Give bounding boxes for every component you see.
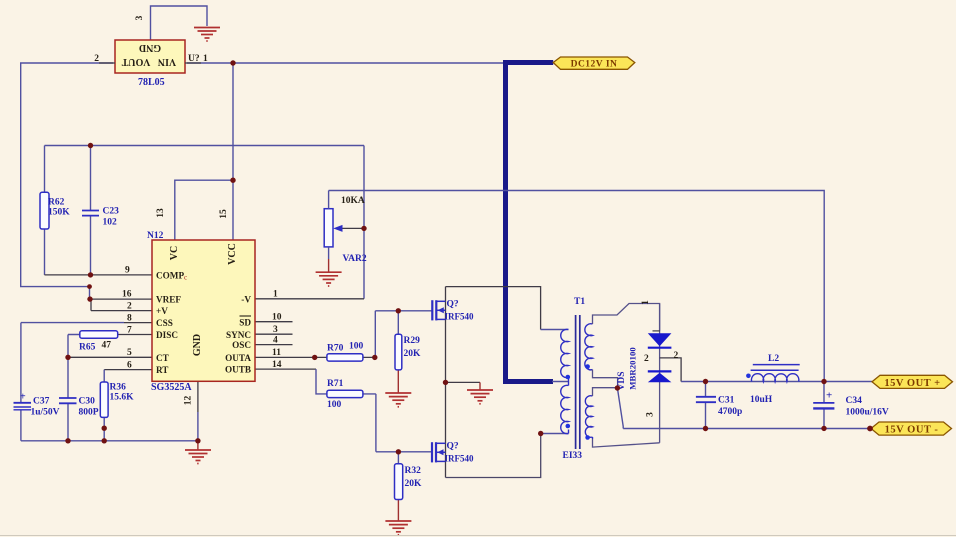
node VIN junction	[230, 60, 235, 65]
svg-text:12: 12	[184, 396, 194, 406]
node Q1 source gnd	[443, 380, 448, 385]
wire R32 stems	[397, 452, 399, 464]
svg-text:SG3525A: SG3525A	[151, 382, 192, 393]
svg-text:VREF: VREF	[156, 295, 181, 305]
svg-text:U?: U?	[188, 54, 200, 64]
svg-text:1: 1	[273, 290, 278, 300]
svg-text:GND: GND	[139, 42, 161, 53]
wire bottom rail	[21, 440, 198, 442]
wire secondary top to D1	[593, 304, 660, 331]
transformer T1 secondary bottom winding	[585, 396, 592, 438]
node C34 top	[821, 379, 826, 384]
svg-text:1u/50V: 1u/50V	[31, 408, 60, 418]
node rail corner	[87, 284, 92, 289]
transistor Q1 IRF540	[432, 300, 436, 320]
node VREF junction	[87, 296, 92, 301]
svg-text:5: 5	[127, 348, 132, 358]
wire IC pin12 gnd	[197, 381, 199, 412]
capacitor C30	[59, 397, 77, 399]
node C30 bottom	[65, 438, 70, 443]
svg-text:C37: C37	[33, 397, 50, 407]
resistor R36	[100, 382, 108, 417]
svg-text:L2: L2	[768, 354, 779, 364]
svg-text:3: 3	[273, 325, 278, 335]
svg-text:SD: SD	[239, 317, 251, 327]
diode D1 MBR20100	[648, 331, 672, 348]
wire VIN down to VC/VCC	[175, 63, 233, 240]
wire center tap to minus rail	[617, 388, 623, 429]
wire RT line	[104, 369, 152, 371]
wire R62 stems	[44, 146, 46, 275]
wire secondary bottom to D2	[593, 439, 660, 447]
svg-text:IRF540: IRF540	[445, 454, 474, 464]
transformer core	[576, 315, 580, 449]
flag 15V OUT +	[872, 375, 953, 389]
ground R29	[385, 393, 411, 407]
wire Q1 drain to primary top	[446, 287, 541, 330]
wire 78L05 pin2 left rail	[21, 63, 113, 287]
svg-text:2: 2	[127, 302, 132, 312]
svg-text:R65: R65	[79, 343, 96, 353]
wire 78L05 pin1 to bus	[187, 62, 503, 64]
node gate Q2	[396, 449, 401, 454]
capacitor C23	[82, 210, 99, 212]
svg-text:EI33: EI33	[563, 451, 583, 461]
node primary bottom	[538, 431, 543, 436]
wire R29 stems	[397, 311, 399, 334]
wire VREF line	[90, 298, 153, 300]
wire +V line	[91, 299, 152, 311]
wire rail to VREF	[89, 287, 91, 300]
ground R32	[385, 521, 411, 535]
wire diode vertical	[659, 304, 661, 443]
ground top	[194, 28, 220, 42]
wire 78L05 pin3 to ground	[151, 6, 208, 40]
svg-text:-V: -V	[241, 294, 251, 304]
svg-text:10uH: 10uH	[750, 395, 773, 405]
node R36 bottom a	[102, 426, 107, 431]
svg-text:1000u/16V: 1000u/16V	[846, 408, 889, 418]
svg-text:20K: 20K	[404, 349, 422, 359]
wire center tap tick	[552, 381, 569, 383]
wire minus rail	[623, 428, 871, 430]
node minus flag	[867, 426, 873, 432]
svg-text:OSC: OSC	[232, 340, 251, 350]
bottom edge line	[0, 535, 956, 537]
svg-text:IRF540: IRF540	[445, 312, 474, 322]
node CT junction	[65, 355, 70, 360]
svg-text:10KA: 10KA	[341, 196, 365, 206]
svg-text:R62: R62	[48, 198, 65, 208]
svg-text:VAR2: VAR2	[343, 254, 367, 264]
svg-text:800P: 800P	[79, 408, 99, 418]
svg-text:2: 2	[644, 354, 649, 364]
flag DC12V IN	[553, 57, 635, 70]
flag 15V OUT -	[871, 422, 952, 436]
pin OSC stub	[255, 344, 293, 346]
svg-text:GND: GND	[192, 334, 203, 356]
polarity dots transformer and L2	[566, 364, 751, 440]
wiper arrow VAR2	[340, 227, 364, 229]
svg-text:78L05: 78L05	[138, 77, 165, 88]
diode D2 MBR20100	[648, 371, 672, 382]
capacitor C37 polarized	[14, 402, 32, 404]
resistor R32	[395, 464, 403, 500]
svg-text:8: 8	[127, 313, 132, 323]
potentiometer VAR2 10KA	[324, 209, 333, 247]
svg-text:102: 102	[103, 218, 118, 228]
svg-text:CT: CT	[156, 353, 169, 363]
svg-text:R70: R70	[327, 344, 344, 354]
svg-text:c: c	[184, 274, 187, 282]
node COMP junction	[88, 272, 93, 277]
svg-text:CSS: CSS	[156, 318, 173, 328]
node OUTA b	[372, 355, 377, 360]
wire feedback from pot top to output	[329, 191, 825, 382]
wire Q2 bottom path to primary bottom	[446, 434, 541, 478]
svg-text:VOUT: VOUT	[121, 56, 150, 67]
inductor L2	[751, 374, 798, 382]
pin SD stub	[255, 321, 293, 323]
svg-text:4: 4	[273, 335, 278, 345]
svg-text:R36: R36	[110, 383, 127, 393]
wire secondary center tap	[593, 370, 618, 397]
resistor R71	[327, 390, 363, 397]
ground Q1 source	[467, 390, 493, 404]
svg-text:+V: +V	[156, 306, 168, 316]
svg-text:9: 9	[125, 266, 130, 276]
resistor R29	[395, 334, 402, 370]
svg-text:DC12V IN: DC12V IN	[571, 60, 618, 70]
svg-text:10: 10	[272, 313, 282, 323]
svg-text:3: 3	[646, 412, 656, 417]
transformer T1 primary winding	[561, 329, 569, 433]
svg-text:N12: N12	[147, 231, 164, 241]
node secondary center tap	[615, 385, 620, 390]
svg-text:R32: R32	[405, 466, 422, 476]
wire node 2 to plus rail	[660, 358, 682, 382]
node C31 top	[703, 379, 708, 384]
svg-text:2: 2	[674, 351, 679, 361]
svg-text:DISC: DISC	[156, 330, 178, 340]
pin SYNC stub	[255, 333, 293, 335]
svg-text:MBR20100: MBR20100	[628, 347, 638, 390]
wire rail y145	[45, 146, 365, 299]
wire CT line	[68, 356, 152, 358]
bus DC12V thick	[503, 60, 553, 382]
resistor R65	[80, 331, 118, 338]
svg-text:VCC: VCC	[227, 243, 238, 265]
svg-text:+: +	[826, 390, 832, 402]
svg-text:150K: 150K	[48, 208, 70, 218]
svg-text:OUTB: OUTB	[225, 365, 251, 375]
node R36 bottom b	[102, 438, 107, 443]
svg-text:R71: R71	[327, 379, 344, 389]
svg-text:7: 7	[127, 325, 132, 335]
svg-text:SYNC: SYNC	[226, 330, 251, 340]
wire MOSFET common vertical	[445, 287, 447, 478]
wire OUTA line	[255, 356, 375, 358]
svg-text:VC: VC	[169, 246, 180, 260]
svg-text:VIN: VIN	[157, 56, 176, 67]
svg-text:C23: C23	[103, 207, 120, 217]
wire C37 stems	[20, 323, 22, 441]
svg-text:14: 14	[272, 360, 282, 370]
transistor Q2 IRF540	[432, 442, 436, 462]
capacitor C34	[823, 382, 825, 429]
wire -V line	[255, 298, 364, 300]
ground IC gnd	[185, 450, 211, 464]
svg-text:20K: 20K	[405, 479, 423, 489]
svg-text:11: 11	[272, 348, 281, 358]
svg-text:16: 16	[122, 290, 132, 300]
node C34 bottom	[821, 426, 826, 431]
wire CSS line	[21, 322, 124, 324]
svg-text:100: 100	[327, 400, 342, 410]
svg-text:100: 100	[349, 342, 364, 352]
IC N12 SG3525A	[152, 240, 255, 381]
wire plus rail	[681, 381, 872, 383]
svg-text:6: 6	[127, 360, 132, 370]
wire source ground stub	[446, 381, 481, 383]
svg-text:T1: T1	[574, 297, 585, 307]
node rail145 C23	[88, 143, 93, 148]
svg-text:15.6K: 15.6K	[110, 393, 135, 403]
node wiper	[361, 226, 366, 231]
node VC/VCC junction	[230, 178, 235, 183]
svg-text:1: 1	[203, 54, 208, 64]
wire R36 stems	[103, 370, 105, 441]
svg-text:C30: C30	[79, 397, 96, 407]
wire COMP line	[45, 274, 153, 276]
wire DISC line	[118, 334, 152, 336]
svg-text:Q?: Q?	[447, 442, 459, 452]
svg-text:15V OUT +: 15V OUT +	[884, 378, 940, 389]
node C31 bottom	[703, 426, 708, 431]
node GND rail	[195, 438, 200, 443]
svg-text:COMP: COMP	[156, 271, 184, 281]
svg-text:13: 13	[156, 208, 166, 218]
node OUTA a	[312, 355, 317, 360]
resistor R62	[40, 192, 49, 229]
node gate Q1	[396, 308, 401, 313]
resistor R70	[327, 354, 363, 361]
svg-text:C34: C34	[846, 396, 863, 406]
svg-text:+: +	[20, 392, 26, 403]
transformer T1 secondary top winding	[585, 324, 593, 370]
ground VAR2	[316, 272, 342, 286]
wire OUTB line	[255, 368, 316, 370]
svg-text:2: 2	[94, 54, 99, 64]
svg-text:OUTA: OUTA	[225, 353, 251, 363]
svg-text:RT: RT	[156, 365, 168, 375]
svg-text:Q?: Q?	[447, 300, 459, 310]
svg-text:R29: R29	[404, 336, 421, 346]
svg-text:4700p: 4700p	[718, 407, 742, 417]
svg-text:3: 3	[135, 15, 145, 20]
wire C30 stems	[67, 357, 69, 441]
capacitor C31	[705, 382, 707, 429]
voltage regulator U? 78L05	[99, 40, 201, 73]
svg-text:15: 15	[219, 209, 229, 219]
wire C23 stems	[90, 146, 92, 275]
svg-text:15V OUT -: 15V OUT -	[885, 425, 939, 436]
svg-text:C31: C31	[718, 396, 735, 406]
svg-text:47: 47	[102, 341, 112, 351]
svg-text:1: 1	[641, 300, 651, 305]
